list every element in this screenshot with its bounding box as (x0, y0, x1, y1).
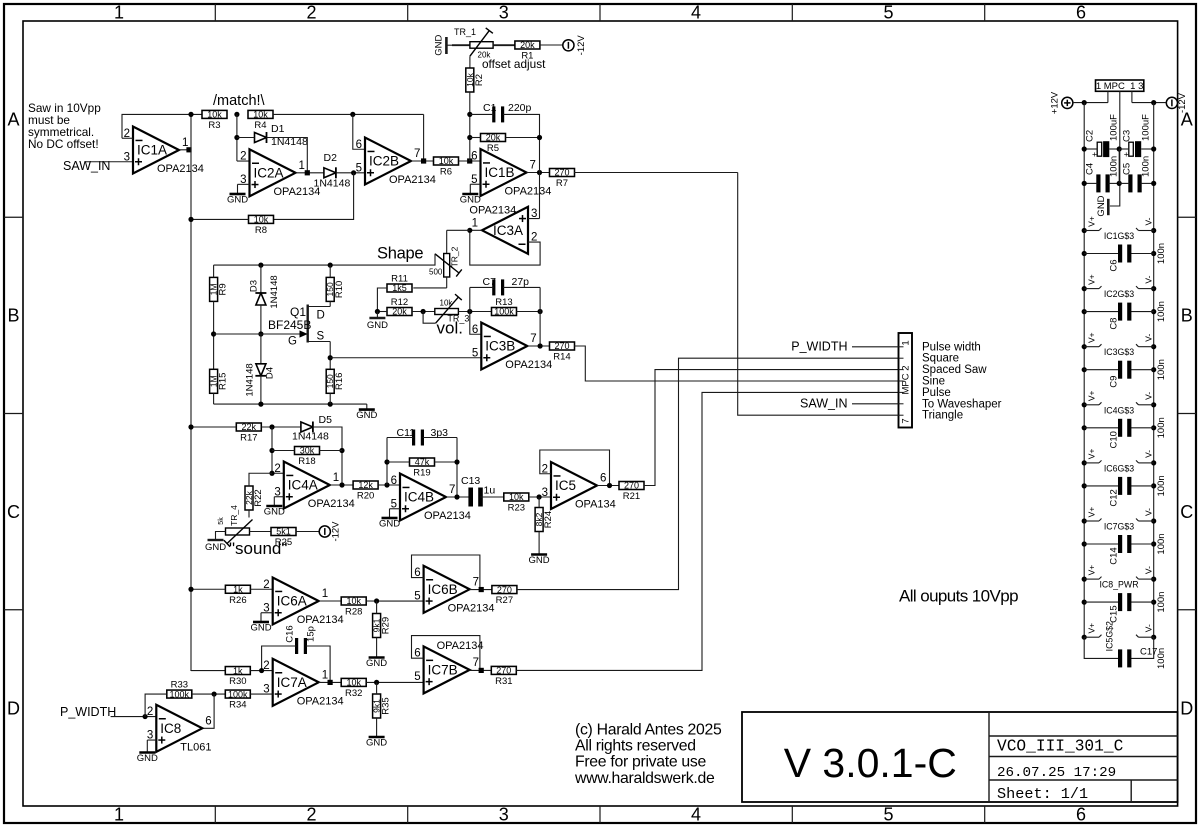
svg-text:R2: R2 (474, 74, 485, 86)
svg-text:R17: R17 (240, 433, 257, 444)
op-amp IC5 (542, 462, 616, 511)
svg-text:P_WIDTH: P_WIDTH (791, 340, 847, 354)
wire R22 bottom (248, 510, 250, 518)
power flag pair IC8_PWR (1082, 565, 1157, 590)
svg-text:V-: V- (1144, 334, 1154, 342)
svg-text:www.haraldswerk.de: www.haraldswerk.de (574, 770, 715, 787)
diode D3 (249, 265, 281, 334)
resistor R23 (504, 492, 529, 513)
svg-text:TR_4: TR_4 (229, 505, 239, 526)
wire C16 left (262, 646, 297, 671)
svg-text:R12: R12 (391, 297, 408, 308)
junction R5-C1 right (537, 135, 542, 140)
wire C1 right (503, 114, 540, 161)
svg-text:C17: C17 (1140, 647, 1157, 658)
wire TR_2 wiper to shape line (214, 254, 435, 265)
junction R13-C7 right (538, 309, 543, 314)
svg-text:C14: C14 (1109, 547, 1120, 564)
diode D4 (245, 334, 276, 404)
svg-text:270: 270 (496, 666, 511, 676)
svg-text:100n: 100n (1156, 592, 1167, 613)
junction IC5 out (607, 483, 612, 488)
capacitor C9 (1082, 359, 1167, 388)
wire C7 right down (539, 287, 541, 346)
svg-text:1: 1 (472, 217, 478, 229)
svg-text:C10: C10 (1109, 431, 1120, 448)
svg-text:R23: R23 (508, 503, 525, 514)
svg-text:R13: R13 (495, 297, 512, 308)
svg-text:vol.: vol. (437, 319, 463, 338)
svg-text:C15: C15 (1109, 605, 1120, 622)
svg-text:GND: GND (137, 753, 158, 764)
svg-text:100n: 100n (1156, 533, 1167, 554)
resistor R1 (515, 40, 540, 61)
wire R33 left (145, 694, 167, 717)
trimmer TR_3 (435, 294, 470, 323)
op-amp IC6B (414, 566, 494, 615)
svg-text:3: 3 (499, 805, 509, 825)
resistor R28 (341, 596, 366, 617)
junction R33-R34 (212, 691, 217, 696)
wire IC2B pin5 to R8 (273, 173, 354, 220)
power flag pair IC2G$3 (1082, 274, 1157, 299)
svg-text:G: G (288, 336, 297, 348)
svg-text:D4: D4 (265, 367, 276, 379)
power +12V (1050, 91, 1073, 114)
wire R32 to IC7B pin5 (366, 681, 423, 683)
wire IC3A out to TR_2 (447, 229, 470, 231)
junction R20-C11 branch (384, 482, 389, 487)
svg-text:IC2G$3: IC2G$3 (1104, 289, 1134, 299)
wire V- rail (1153, 103, 1155, 636)
svg-text:100n: 100n (1156, 243, 1167, 264)
svg-text:C8: C8 (1109, 318, 1120, 330)
wire R5 left (470, 137, 481, 139)
svg-text:OPA2134: OPA2134 (157, 163, 204, 175)
wire D1 cathode to IC2A out (267, 138, 308, 173)
wire C7 plates (470, 286, 540, 288)
svg-text:4: 4 (691, 3, 701, 23)
wire C1 left (470, 113, 494, 115)
resistor R4 (248, 110, 273, 131)
svg-text:1 MPC_1 3: 1 MPC_1 3 (1096, 81, 1144, 92)
wire TR_2 bottom to R11 (413, 287, 446, 289)
junction R11-R12-gnd (375, 309, 380, 314)
resistor R35 (vertical) (372, 694, 392, 718)
svg-text:4: 4 (691, 805, 701, 825)
ground MPC_1 (rotated) (1096, 195, 1108, 216)
svg-text:20k: 20k (486, 133, 501, 143)
svg-text:IC1B: IC1B (485, 165, 515, 180)
capacitor C15 (1082, 592, 1167, 623)
capacitor C12 (1082, 475, 1167, 506)
wire C2 (1084, 148, 1119, 150)
wire R17 right (261, 426, 301, 428)
resistor R20 (353, 480, 378, 501)
power flag pair IC4G$3 (1082, 390, 1157, 415)
svg-text:R11: R11 (391, 274, 408, 285)
svg-text:47k: 47k (415, 457, 430, 467)
svg-text:OPA2134: OPA2134 (505, 359, 552, 371)
capacitor C3 (electrolytic) (1122, 114, 1152, 159)
svg-text:D1: D1 (271, 123, 285, 135)
svg-text:1: 1 (901, 340, 912, 345)
svg-text:C: C (7, 502, 20, 522)
svg-text:2: 2 (263, 579, 269, 591)
wire IC4B pin5 gnd stub (390, 509, 401, 514)
label offset adjust (482, 57, 546, 71)
svg-text:TL061: TL061 (180, 741, 211, 753)
wire IC7B feedback (412, 636, 480, 671)
wire R16 bottom (329, 393, 331, 404)
resistor R22 (vertical) (244, 486, 264, 510)
svg-text:R18: R18 (298, 456, 315, 467)
svg-text:V-: V- (1144, 217, 1154, 225)
op-amp IC2A (240, 149, 320, 198)
junction R18 right (339, 448, 344, 453)
wire R22 top (249, 473, 272, 486)
wire IC8 pin3 gnd stub (147, 740, 156, 749)
svg-text:100uF: 100uF (1109, 114, 1120, 141)
svg-text:V-: V- (1144, 624, 1154, 632)
svg-text:R14: R14 (553, 352, 570, 363)
junction TR_3 wiper node (421, 309, 426, 314)
svg-text:C9: C9 (1109, 376, 1120, 388)
svg-text:R10: R10 (334, 281, 345, 298)
wire R21 to spaced-saw riser (644, 370, 899, 486)
svg-text:OPA2134: OPA2134 (389, 174, 436, 186)
resistor R6 (434, 156, 459, 177)
op-amp IC7A (263, 659, 343, 708)
svg-text:offset adjust: offset adjust (482, 57, 546, 71)
junction gate-diodes (258, 331, 263, 336)
svg-text:7: 7 (414, 148, 420, 160)
resistor R11 (387, 274, 412, 294)
svg-text:GND: GND (366, 658, 387, 669)
svg-text:1: 1 (322, 588, 328, 600)
op-amp IC2B (356, 138, 436, 187)
junction R2-C1 (467, 112, 472, 117)
wire R23 to IC5 (529, 496, 551, 498)
svg-text:V+: V+ (1087, 565, 1097, 576)
svg-text:V-: V- (1144, 450, 1154, 458)
wire R10 bottom to drain (329, 301, 331, 306)
svg-text:TR_2: TR_2 (450, 246, 460, 267)
svg-text:All rights reserved: All rights reserved (575, 738, 696, 755)
svg-text:5: 5 (414, 591, 420, 603)
svg-text:10k: 10k (253, 110, 268, 120)
svg-text:2: 2 (274, 463, 280, 475)
capacitor C13 (461, 475, 495, 507)
diode D5 (292, 414, 332, 443)
junction D2-IC2B pin5 (351, 170, 356, 175)
power -12V (R1) (563, 35, 587, 56)
note text Saw in 10Vpp (28, 101, 101, 151)
resistor R21 (619, 481, 644, 502)
svg-text:R34: R34 (229, 700, 246, 711)
wire IC4A output (330, 484, 354, 486)
svg-text:C1: C1 (483, 102, 497, 114)
svg-text:3: 3 (542, 487, 548, 499)
title sheet (997, 785, 1088, 803)
junction R28-R29 (374, 598, 379, 603)
capacitor C7 (483, 276, 530, 295)
svg-text:10k: 10k (439, 156, 454, 166)
svg-text:-12V: -12V (331, 521, 342, 542)
trimmer TR_2 (429, 230, 462, 288)
wire R4 to IC2B input node (273, 113, 424, 115)
svg-text:V 3.0.1-C: V 3.0.1-C (784, 740, 957, 786)
svg-text:100k: 100k (170, 689, 190, 699)
wire IC2B output (411, 160, 435, 162)
wire IC4B output (446, 496, 471, 498)
wire IC1A feedback (122, 114, 203, 138)
svg-text:6: 6 (1076, 3, 1086, 23)
wire R13 right (516, 311, 540, 313)
resistor R25 (271, 527, 296, 548)
wire rail to R26 (191, 588, 225, 590)
resistor R17 (236, 422, 261, 443)
wire C13 to R23 (480, 496, 504, 498)
svg-text:IC1A: IC1A (137, 143, 167, 158)
wire MPC_1 pin3 to -12V (1132, 91, 1166, 102)
power flag pair IC7G$3 (1082, 507, 1157, 532)
net label P_WIDTH (60, 705, 116, 719)
svg-text:V+: V+ (1087, 216, 1097, 227)
svg-text:1N4148: 1N4148 (245, 363, 256, 396)
capacitor C5 (1122, 156, 1152, 193)
wire TR_3 wiper hook (423, 312, 436, 324)
junction IC3A output (467, 228, 472, 233)
svg-text:2: 2 (306, 805, 316, 825)
svg-text:100n: 100n (1141, 156, 1152, 177)
label sound (229, 539, 287, 558)
svg-text:100n: 100n (1109, 156, 1120, 177)
svg-text:GND: GND (264, 507, 285, 518)
svg-text:1N4148: 1N4148 (292, 431, 329, 443)
svg-text:R22: R22 (253, 489, 264, 506)
svg-text:R4: R4 (254, 120, 266, 131)
svg-text:GND: GND (529, 555, 550, 566)
wire rail to R30 (191, 670, 225, 672)
junction bottom-D4 (258, 402, 263, 407)
junction R19 right (454, 459, 459, 464)
svg-text:IC1G$3: IC1G$3 (1104, 231, 1134, 241)
label match! (213, 93, 266, 109)
junction R17-R18 node (269, 424, 274, 429)
svg-text:10k: 10k (254, 215, 269, 225)
svg-text:VCO_III_301_C: VCO_III_301_C (997, 738, 1124, 756)
wire main rail vertical (190, 114, 192, 671)
svg-text:3: 3 (499, 3, 509, 23)
svg-text:Spaced Saw: Spaced Saw (922, 364, 987, 376)
wire C11 left branch (386, 438, 388, 486)
svg-text:GND: GND (367, 320, 388, 331)
wire C16 right (306, 646, 330, 682)
wire R30 right (250, 670, 272, 672)
wire P_WIDTH to IC8 pin2 (111, 716, 157, 718)
svg-text:270: 270 (624, 481, 639, 491)
wire IC1B output (527, 172, 551, 174)
wire R26 right (250, 588, 272, 590)
op-amp IC3B (472, 323, 552, 372)
wire R19 stubs (387, 461, 457, 463)
resistor R15 (vertical) (209, 369, 229, 393)
junction source-IC3B (328, 355, 333, 360)
svg-text:D: D (7, 699, 20, 719)
ground R29 (366, 652, 387, 669)
svg-text:5: 5 (414, 671, 420, 683)
svg-text:C7: C7 (483, 276, 497, 288)
svg-text:7: 7 (530, 333, 536, 345)
svg-text:R33: R33 (171, 680, 188, 691)
resistor R33 (167, 680, 192, 700)
wire IC6B output (470, 589, 492, 591)
svg-text:10k: 10k (346, 596, 361, 606)
wire R12 left (377, 311, 387, 313)
svg-text:IC4A: IC4A (288, 478, 318, 493)
junction IC2A out - D1 (305, 170, 310, 175)
wire IC3A pin3 (528, 218, 540, 220)
svg-text:22k: 22k (242, 422, 257, 432)
svg-text:-12V: -12V (1177, 92, 1188, 113)
svg-text:OPA2134: OPA2134 (448, 602, 495, 614)
wire IC5 output (597, 485, 619, 487)
transistor Q1 BF245B (214, 305, 331, 348)
svg-text:B: B (7, 306, 19, 326)
op-amp IC8 (147, 705, 212, 754)
svg-text:V+: V+ (1087, 390, 1097, 401)
svg-text:GND: GND (1096, 195, 1107, 216)
wire R33 right (192, 693, 226, 695)
svg-text:100k: 100k (494, 307, 514, 317)
svg-text:GND: GND (205, 542, 226, 553)
wire IC6A pin3 gnd stub (261, 613, 273, 618)
junction bottom-R16 (328, 402, 333, 407)
connector MPC_2 (899, 333, 913, 428)
svg-text:"sound": "sound" (229, 539, 287, 558)
svg-text:R27: R27 (496, 595, 513, 606)
svg-text:D3: D3 (249, 280, 260, 292)
svg-text:R8: R8 (255, 225, 267, 236)
svg-text:100n: 100n (1156, 359, 1167, 380)
svg-text:IC6A: IC6A (277, 594, 307, 609)
wire V+ rail (1083, 103, 1085, 636)
wire R24 top (538, 497, 540, 508)
svg-text:IC6B: IC6B (428, 582, 458, 597)
svg-text:5k: 5k (218, 517, 225, 525)
ground IC4B pin5 (379, 514, 400, 530)
svg-text:2: 2 (306, 3, 316, 23)
svg-text:R19: R19 (413, 468, 430, 479)
label Shape (377, 245, 423, 263)
connector MPC_2 pin function labels (922, 341, 1002, 421)
resistor R34 (225, 689, 250, 710)
svg-text:IC8: IC8 (160, 721, 181, 736)
svg-text:+12V: +12V (1050, 91, 1061, 114)
svg-text:6: 6 (600, 473, 606, 485)
svg-text:Pulse width: Pulse width (922, 341, 981, 353)
wire R8 left (191, 218, 249, 220)
op-amp IC4A (274, 462, 354, 511)
junction IC4B out (454, 494, 459, 499)
wire C4 (1084, 182, 1119, 184)
wire D1 anode (237, 137, 255, 139)
junction C2 right (1117, 146, 1122, 151)
ground IC6A pin3 (250, 618, 271, 634)
svg-text:30k: 30k (300, 446, 315, 456)
wire IC2A output (296, 172, 324, 174)
capacitor C8 (1082, 301, 1167, 330)
wire P_WIDTH to pin1 (852, 346, 899, 348)
svg-text:R26: R26 (229, 595, 246, 606)
wire R1 to -12V (539, 44, 566, 46)
wire IC6A output (319, 600, 342, 602)
svg-text:27p: 27p (512, 276, 530, 288)
wire SAW_IN to pin6 (852, 403, 899, 405)
svg-text:C6: C6 (1109, 259, 1120, 271)
wire IC1B out down to IC3A pin3 (539, 161, 541, 219)
svg-text:6: 6 (472, 324, 478, 336)
wire TR_4 right (250, 531, 272, 533)
svg-text:V+: V+ (1087, 274, 1097, 285)
ground R24 (529, 549, 550, 566)
svg-text:IC2A: IC2A (254, 165, 284, 180)
wire IC7A output (319, 681, 342, 683)
ground IC4A pin3 (264, 502, 285, 518)
svg-text:5: 5 (883, 805, 893, 825)
wire C3 (1119, 148, 1154, 150)
svg-text:IC7A: IC7A (277, 675, 307, 690)
resistor R8 (249, 215, 274, 236)
svg-text:B: B (1181, 306, 1193, 326)
svg-text:R9: R9 (218, 283, 229, 295)
ground IC1B pin5 (460, 190, 481, 206)
junction C3 right (1151, 146, 1156, 151)
svg-text:R35: R35 (381, 697, 392, 714)
power -12V (1166, 92, 1188, 113)
wire R12 right (412, 311, 435, 313)
svg-text:All ouputs 10Vpp: All ouputs 10Vpp (899, 586, 1018, 605)
wire R7 to triangle riser (574, 172, 738, 174)
svg-text:C4: C4 (1085, 163, 1096, 175)
svg-text:OPA2134: OPA2134 (308, 498, 355, 510)
copyright note (574, 722, 722, 787)
wire TR_4 left to gnd (216, 532, 226, 541)
svg-text:100n: 100n (1156, 417, 1167, 438)
op-amp IC1B (471, 149, 551, 198)
resistor R9 (vertical) (209, 277, 229, 301)
wire IC3A pin2 feedback (470, 230, 540, 265)
svg-text:R16: R16 (334, 373, 345, 390)
resistor R14 (550, 341, 575, 362)
capacitor C14 (1082, 533, 1167, 564)
wire IC4A pin3 gnd stub (274, 497, 284, 502)
svg-text:10k: 10k (440, 298, 454, 307)
ground TR_4 (205, 540, 226, 553)
wire rail to R17 (191, 426, 236, 428)
svg-text:OPA2134: OPA2134 (437, 640, 484, 652)
wire R10 top (329, 265, 331, 277)
svg-text:6: 6 (356, 139, 362, 151)
wire R33-R34 node to IC8 out (202, 694, 214, 728)
title doc name (997, 738, 1124, 756)
svg-text:GND: GND (366, 738, 387, 749)
svg-text:220p: 220p (508, 102, 532, 114)
note All ouputs 10Vpp (899, 586, 1018, 605)
svg-text:5: 5 (472, 347, 478, 359)
capacitor C4 (1085, 156, 1120, 193)
